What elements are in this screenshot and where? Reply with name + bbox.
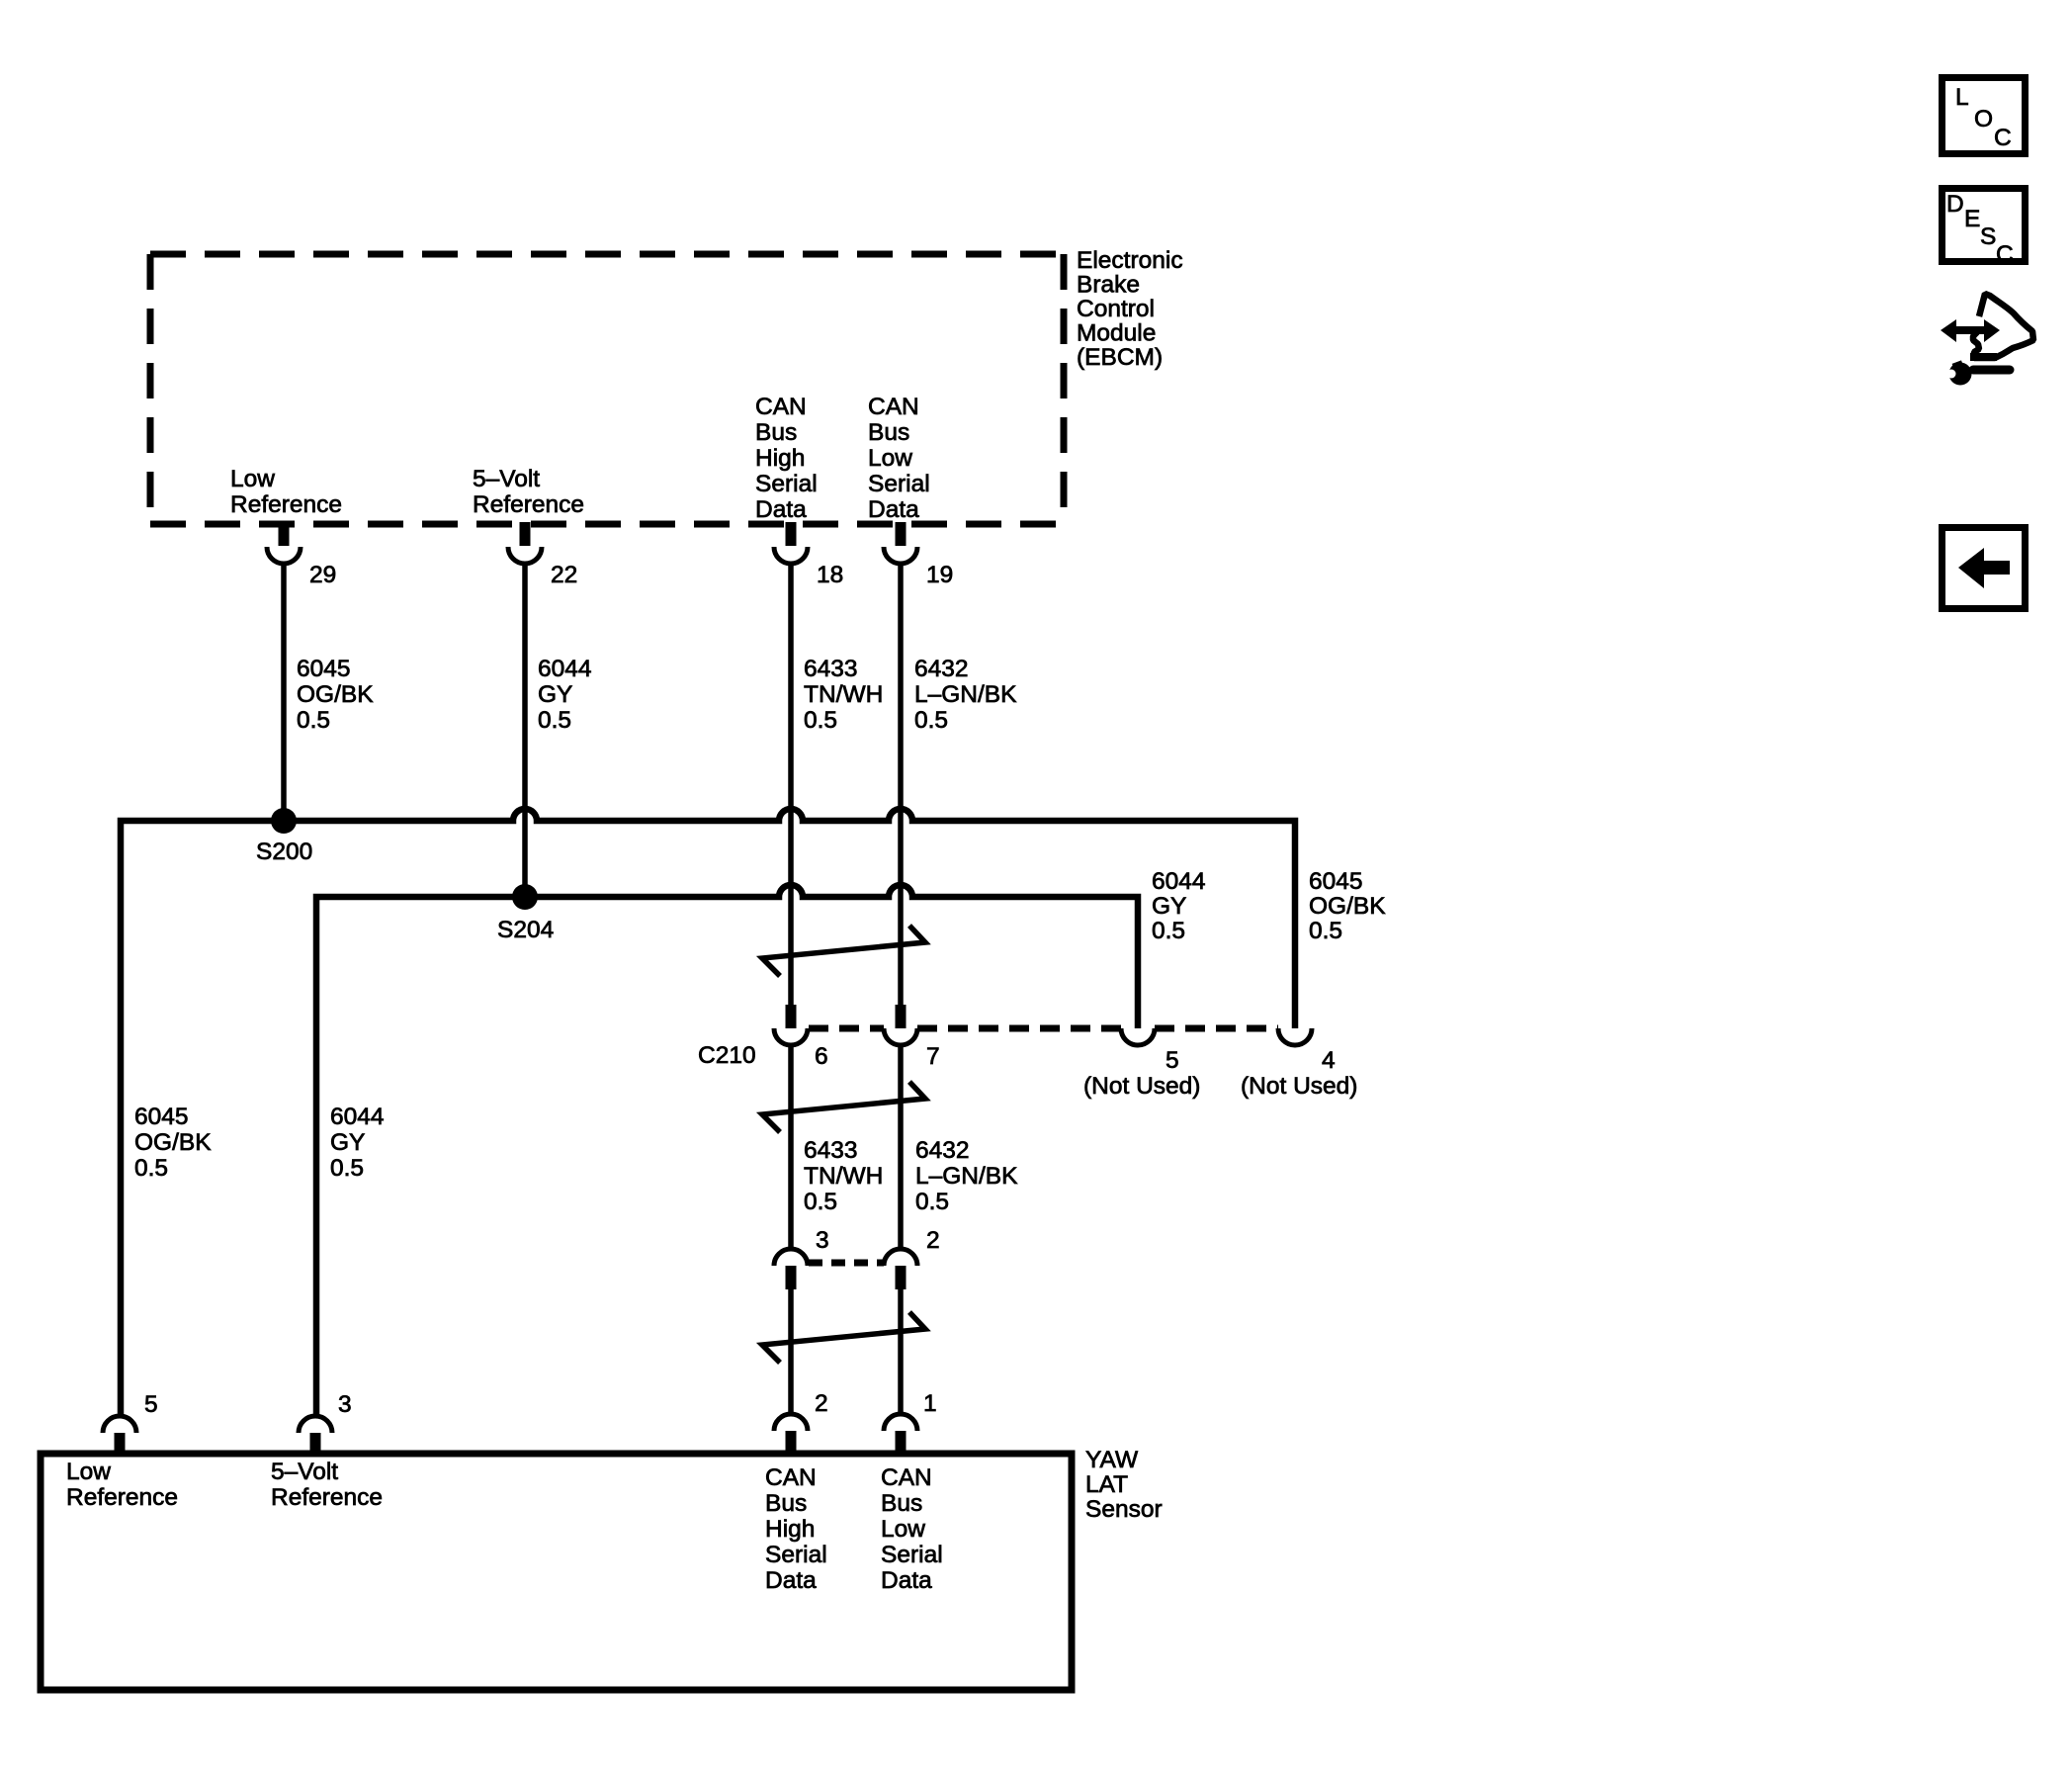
inline connector dashed line — [809, 1260, 884, 1267]
svg-text:0.5: 0.5 — [1309, 918, 1342, 944]
wire label 6044 GY 0.5 (top) — [538, 656, 592, 734]
back arrow icon box — [1942, 528, 2026, 609]
svg-text:2: 2 — [815, 1390, 828, 1417]
vehicle direction icon: double arrow — [1941, 319, 2000, 342]
svg-text:0.5: 0.5 — [915, 1189, 949, 1215]
svg-text:22: 22 — [551, 562, 577, 588]
svg-text:YAW: YAW — [1085, 1447, 1139, 1473]
svg-text:LAT: LAT — [1085, 1471, 1128, 1498]
vehicle direction icon: wrench — [1947, 360, 2011, 385]
sensor pin label: 5-Volt Reference — [271, 1459, 383, 1511]
svg-text:(Not Used): (Not Used) — [1241, 1073, 1357, 1100]
svg-text:C: C — [1996, 241, 2014, 268]
wire label 6045 OG/BK 0.5 (left branch) — [134, 1104, 212, 1182]
wire label 6432 L-GN/BK 0.5 (top) — [914, 656, 1017, 734]
wire label 6044 GY 0.5 (right, to C210 pin 5) — [1152, 868, 1206, 944]
svg-text:6433: 6433 — [804, 1137, 858, 1164]
svg-text:6432: 6432 — [915, 1137, 970, 1164]
svg-text:GY: GY — [330, 1129, 365, 1156]
svg-text:0.5: 0.5 — [804, 707, 837, 734]
svg-text:2: 2 — [926, 1227, 940, 1254]
svg-text:0.5: 0.5 — [134, 1155, 168, 1182]
svg-text:Brake: Brake — [1077, 272, 1140, 299]
svg-text:O: O — [1974, 106, 1993, 133]
sensor pin label: Low Reference — [66, 1459, 178, 1511]
splice S204 — [512, 884, 538, 910]
sensor pin 2 terminal — [774, 1414, 808, 1455]
svg-text:(EBCM): (EBCM) — [1077, 344, 1163, 371]
wire 6044 GY from pin 22 down to S204 — [522, 564, 528, 897]
svg-text:E: E — [1964, 206, 1980, 232]
svg-text:(Not Used): (Not Used) — [1083, 1073, 1200, 1100]
connector C210 dashed line — [809, 1025, 1278, 1032]
connector terminal pin 29 — [267, 522, 301, 564]
inline connector pin 3 terminal — [774, 1249, 808, 1289]
wire label 6044 GY 0.5 (left branch) — [330, 1104, 385, 1182]
svg-text:0.5: 0.5 — [538, 707, 571, 734]
EBCM pin label: 5-Volt Reference — [473, 466, 584, 518]
sensor pin 1 terminal — [884, 1414, 917, 1455]
connector terminal pin 18 — [774, 522, 808, 564]
svg-text:3: 3 — [816, 1227, 829, 1254]
EBCM pin label: CAN Bus High Serial Data — [755, 394, 818, 523]
svg-text:OG/BK: OG/BK — [134, 1129, 212, 1156]
svg-text:Serial: Serial — [755, 471, 818, 497]
svg-text:High: High — [755, 445, 805, 472]
svg-text:3: 3 — [338, 1391, 352, 1418]
svg-text:TN/WH: TN/WH — [804, 1163, 883, 1190]
svg-text:OG/BK: OG/BK — [297, 681, 374, 708]
EBCM pin label: Low Reference — [230, 466, 342, 518]
wire S200 trunk (6045 OG/BK) with hops, left leg to sensor pin 5, right leg to C210 pin 4 — [121, 809, 1295, 1416]
svg-text:S200: S200 — [256, 839, 312, 865]
svg-text:5–Volt: 5–Volt — [271, 1459, 338, 1485]
svg-text:High: High — [765, 1516, 815, 1543]
svg-text:5–Volt: 5–Volt — [473, 466, 540, 492]
twisted pair symbol (below C210) — [762, 1082, 925, 1132]
wire 6433 TN/WH from pin 18 down to C210 pin 6 — [788, 564, 794, 1007]
C210 pin 6 terminal — [774, 1005, 808, 1045]
svg-text:4: 4 — [1322, 1047, 1336, 1074]
svg-text:19: 19 — [926, 562, 953, 588]
svg-text:Electronic: Electronic — [1077, 247, 1183, 274]
svg-text:Low: Low — [881, 1516, 925, 1543]
svg-text:6044: 6044 — [330, 1104, 385, 1130]
svg-text:Reference: Reference — [230, 491, 342, 518]
wire 6432 L-GN/BK from C210 pin 7 to inline pin 2 — [898, 1045, 904, 1249]
EBCM module dashed box — [150, 254, 1064, 524]
svg-text:0.5: 0.5 — [914, 707, 948, 734]
svg-text:Reference: Reference — [271, 1484, 383, 1511]
svg-text:Data: Data — [765, 1567, 817, 1594]
svg-text:6045: 6045 — [134, 1104, 189, 1130]
wire 6045 OG/BK from pin 29 down to S200 — [281, 564, 287, 821]
svg-text:Data: Data — [881, 1567, 932, 1594]
sensor pin 3 terminal — [299, 1416, 332, 1455]
svg-text:Control: Control — [1077, 296, 1155, 322]
sensor label YAW LAT Sensor — [1085, 1447, 1163, 1523]
svg-text:6433: 6433 — [804, 656, 858, 682]
wire label 6433 TN/WH 0.5 (top) — [804, 656, 883, 734]
inline connector pin 2 terminal — [884, 1249, 917, 1289]
C210 pin 7 terminal — [884, 1005, 917, 1045]
YAW LAT Sensor box — [41, 1454, 1072, 1690]
LOC icon box — [1942, 78, 2026, 154]
svg-text:29: 29 — [309, 562, 336, 588]
wire S204 trunk (6044 GY) with hops, left leg to sensor pin 3, right leg to C210 pin 5 — [316, 885, 1138, 1416]
svg-text:D: D — [1946, 191, 1964, 218]
wire 6432 L-GN/BK from pin 19 down to C210 pin 7 — [898, 564, 904, 1007]
wire 6432 L-GN/BK from inline pin 2 to sensor pin 1 — [898, 1289, 904, 1415]
wire label 6433 TN/WH 0.5 (middle) — [804, 1137, 883, 1215]
svg-text:TN/WH: TN/WH — [804, 681, 883, 708]
svg-text:OG/BK: OG/BK — [1309, 893, 1386, 920]
svg-text:GY: GY — [538, 681, 572, 708]
connector terminal pin 19 — [884, 522, 917, 564]
wire label 6045 OG/BK 0.5 (top) — [297, 656, 374, 734]
svg-text:6044: 6044 — [538, 656, 592, 682]
sensor pin 5 terminal — [103, 1416, 136, 1455]
svg-text:L: L — [1955, 84, 1969, 111]
DESC icon box — [1942, 189, 2026, 269]
connector terminal pin 22 — [508, 522, 542, 564]
svg-text:Bus: Bus — [881, 1490, 922, 1517]
wire label 6432 L-GN/BK 0.5 (middle) — [915, 1137, 1018, 1215]
svg-text:GY: GY — [1152, 893, 1186, 920]
sensor pin label: CAN Bus Low Serial Data — [881, 1464, 943, 1594]
svg-text:Data: Data — [868, 496, 919, 523]
svg-text:C210: C210 — [698, 1042, 756, 1069]
wire label 6045 OG/BK 0.5 (right, to C210 pin 4) — [1309, 868, 1386, 944]
sensor pin label: CAN Bus High Serial Data — [765, 1464, 827, 1594]
svg-text:7: 7 — [926, 1043, 940, 1070]
svg-text:6044: 6044 — [1152, 868, 1206, 895]
svg-text:Bus: Bus — [868, 419, 909, 446]
svg-text:Low: Low — [66, 1459, 111, 1485]
svg-text:6045: 6045 — [297, 656, 351, 682]
svg-text:Serial: Serial — [881, 1542, 943, 1568]
svg-text:6045: 6045 — [1309, 868, 1363, 895]
svg-text:CAN: CAN — [881, 1464, 932, 1491]
C210 pin 5 terminal (not used) — [1121, 1028, 1155, 1045]
svg-text:L–GN/BK: L–GN/BK — [915, 1163, 1018, 1190]
svg-text:CAN: CAN — [868, 394, 919, 420]
svg-text:CAN: CAN — [765, 1464, 817, 1491]
svg-text:6: 6 — [815, 1043, 828, 1070]
svg-text:0.5: 0.5 — [1152, 918, 1185, 944]
svg-text:0.5: 0.5 — [330, 1155, 364, 1182]
vehicle direction icon: vehicle outline — [1970, 294, 2033, 361]
svg-text:Data: Data — [755, 496, 807, 523]
splice S200 — [271, 808, 297, 834]
twisted pair symbol (above sensor) — [762, 1312, 925, 1363]
svg-text:5: 5 — [144, 1391, 158, 1418]
svg-text:Serial: Serial — [868, 471, 930, 497]
svg-text:18: 18 — [817, 562, 843, 588]
svg-text:Low: Low — [868, 445, 912, 472]
svg-text:Reference: Reference — [66, 1484, 178, 1511]
svg-text:CAN: CAN — [755, 394, 807, 420]
EBCM pin label: CAN Bus Low Serial Data — [868, 394, 930, 523]
svg-text:Low: Low — [230, 466, 275, 492]
svg-text:L–GN/BK: L–GN/BK — [914, 681, 1017, 708]
EBCM module label — [1077, 247, 1183, 371]
svg-text:Serial: Serial — [765, 1542, 827, 1568]
svg-text:0.5: 0.5 — [297, 707, 330, 734]
svg-text:Module: Module — [1077, 320, 1156, 347]
svg-text:0.5: 0.5 — [804, 1189, 837, 1215]
wire 6433 TN/WH from C210 pin 6 to inline pin 3 — [788, 1045, 794, 1249]
svg-text:5: 5 — [1165, 1047, 1179, 1074]
twisted pair symbol (above C210) — [762, 926, 925, 976]
svg-text:Bus: Bus — [755, 419, 797, 446]
wire 6433 TN/WH from inline pin 3 to sensor pin 2 — [788, 1289, 794, 1415]
svg-text:S204: S204 — [497, 917, 554, 943]
svg-text:Bus: Bus — [765, 1490, 807, 1517]
svg-text:Sensor: Sensor — [1085, 1496, 1163, 1523]
svg-text:6432: 6432 — [914, 656, 969, 682]
svg-text:Reference: Reference — [473, 491, 584, 518]
C210 pin 4 terminal (not used) — [1278, 1028, 1312, 1045]
svg-text:S: S — [1980, 223, 1996, 250]
svg-text:C: C — [1994, 125, 2012, 151]
svg-text:1: 1 — [923, 1390, 937, 1417]
